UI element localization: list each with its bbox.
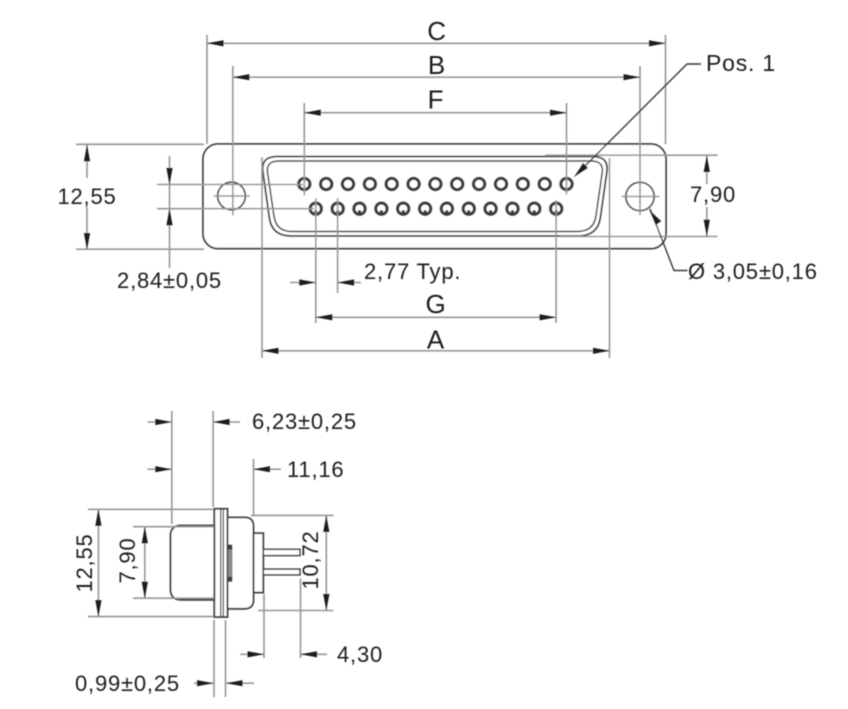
- dimension B extension line left (hole centerline): [232, 66, 234, 216]
- contact pin bottom row #23: [507, 203, 518, 214]
- dimension 11,16 extension line right (body face): [253, 459, 255, 515]
- left mounting hole: [214, 182, 251, 210]
- dimension 0,99 arrows: [194, 680, 254, 686]
- dimension 7,90 line with arrows: [704, 156, 710, 237]
- dimension 7,90 top extension line: [545, 154, 718, 156]
- svg-text:2,84±0,05: 2,84±0,05: [117, 268, 222, 293]
- Pos. 1 leader line with arrow: [574, 64, 702, 178]
- dimension A extension line left: [261, 157, 263, 358]
- svg-text:B: B: [428, 50, 446, 80]
- svg-text:4,30: 4,30: [337, 642, 383, 667]
- connector flange front view: [203, 144, 666, 249]
- side dimension 12,55 bottom extension line: [88, 616, 213, 618]
- dimension A line with arrows: [262, 348, 610, 354]
- dimension 0,99 extension line left (flange front face): [213, 620, 215, 697]
- svg-text:C: C: [427, 16, 447, 46]
- side view insulator bar: [228, 545, 233, 582]
- contact pin bottom row #18: [398, 203, 409, 214]
- contact pin top row #3: [342, 178, 353, 189]
- contact pin top row #8: [452, 178, 463, 189]
- dimension 6,23 extension line right (flange face): [212, 411, 214, 507]
- svg-text:2,77 Typ.: 2,77 Typ.: [364, 259, 461, 284]
- dimension F line with arrows: [304, 110, 566, 116]
- dimension F extension line left through pin 1: [303, 103, 305, 196]
- contact pin top row #9: [473, 178, 484, 189]
- dimension 10,72 line with arrows: [323, 515, 329, 610]
- svg-text:A: A: [427, 325, 445, 355]
- svg-text:12,55: 12,55: [57, 184, 116, 209]
- contact pin bottom row #20: [441, 203, 452, 214]
- contact pin top row #2: [321, 178, 332, 189]
- side dimension 7,90 bottom extension line: [133, 597, 214, 599]
- contact pin top row #5: [386, 178, 397, 189]
- svg-text:11,16: 11,16: [287, 457, 344, 482]
- svg-text:0,99±0,25: 0,99±0,25: [75, 671, 180, 696]
- side dimension 7,90 line with arrows: [142, 527, 148, 599]
- side dimension 7,90 top extension line: [133, 526, 214, 528]
- dimension 10,72 top extension line: [251, 514, 333, 516]
- dimension 12,55 line with arrows: [84, 145, 90, 250]
- dimension B line with arrows: [233, 74, 640, 80]
- dimension 4,30 extension line right (pin tip): [300, 579, 302, 659]
- dimension 2,84 lower extension line (bottom pin row): [157, 208, 314, 210]
- dimension 11,16 arrows: [148, 466, 282, 472]
- dimension 2,77 extension line right through pin 15: [337, 198, 339, 293]
- contact pin bottom row #22: [485, 203, 496, 214]
- dimension C extension line right: [665, 35, 667, 144]
- dimension A extension line right: [609, 158, 611, 358]
- dimension C line with arrows: [207, 40, 666, 46]
- side view D-shell: [171, 526, 215, 600]
- side view upper solder pin: [263, 549, 300, 555]
- contact pin top row #10: [495, 178, 506, 189]
- dimension G line with arrows: [316, 314, 556, 320]
- side view insulator step: [254, 533, 264, 592]
- dimension C extension line left: [206, 35, 208, 144]
- svg-text:F: F: [428, 85, 445, 115]
- dimension 6,23 arrows: [148, 419, 241, 425]
- contact pin bottom row #21: [463, 203, 474, 214]
- dimension 7,90 bottom extension line: [560, 236, 718, 238]
- dimension G extension line right through pin 25: [555, 200, 557, 323]
- dimension 2,77 line with arrows: [290, 279, 361, 285]
- contact pin top row #12: [539, 178, 550, 189]
- contact pin bottom row #14: [310, 203, 321, 214]
- D-shell outer outline: [263, 157, 607, 237]
- contact pin top row #11: [517, 178, 528, 189]
- contact pin bottom row #24: [529, 203, 540, 214]
- contact pin bottom row #19: [419, 203, 430, 214]
- dimension 6,23 extension line left (shell face): [171, 411, 173, 524]
- contact pin bottom row #15: [332, 203, 343, 214]
- svg-text:10,72: 10,72: [298, 530, 323, 589]
- side view mounting flange plate: [214, 509, 227, 617]
- contact pin top row #6: [408, 178, 419, 189]
- side dimension 12,55 line with arrows: [95, 509, 101, 616]
- hole diameter leader line with arrow: [649, 209, 688, 271]
- contact pin top row #1: [299, 178, 310, 189]
- contact pin top row #4: [364, 178, 375, 189]
- dimension 12,55 bottom extension line: [76, 248, 204, 250]
- svg-text:6,23±0,25: 6,23±0,25: [252, 409, 357, 434]
- dimension 0,99 extension line right (flange rear face): [225, 620, 227, 697]
- contact pin bottom row #25: [551, 203, 562, 214]
- dimension 2,84 line with arrows: [166, 156, 172, 268]
- side dimension 12,55 top extension line: [88, 508, 213, 510]
- contact pin top row #13: [561, 178, 572, 189]
- svg-text:12,55: 12,55: [72, 533, 97, 592]
- dimension 2,77 extension line left through pin 14: [315, 198, 317, 323]
- svg-text:G: G: [425, 289, 446, 319]
- dimension 4,30 extension line left (pin root): [263, 594, 265, 658]
- dimension 2,84 upper extension line (top pin row): [157, 184, 303, 186]
- side view connector body: [228, 517, 254, 608]
- dimension 10,72 bottom extension line: [258, 610, 333, 612]
- dimension 12,55 top extension line: [76, 143, 204, 145]
- contact pin bottom row #17: [376, 203, 387, 214]
- dimension F extension line right through pin 13: [566, 103, 568, 195]
- svg-text:Pos. 1: Pos. 1: [706, 50, 776, 76]
- svg-text:7,90: 7,90: [690, 182, 736, 207]
- contact pin top row #7: [430, 178, 441, 189]
- D-shell inner outline: [267, 161, 602, 232]
- right mounting hole: [622, 182, 660, 210]
- dimension B extension line right (hole centerline): [639, 66, 641, 215]
- side view lower solder pin: [263, 569, 300, 575]
- contact pin bottom row #16: [354, 203, 365, 214]
- svg-text:7,90: 7,90: [115, 537, 140, 583]
- svg-text:Ø 3,05±0,16: Ø 3,05±0,16: [688, 259, 818, 284]
- dimension 4,30 arrows: [240, 651, 327, 657]
